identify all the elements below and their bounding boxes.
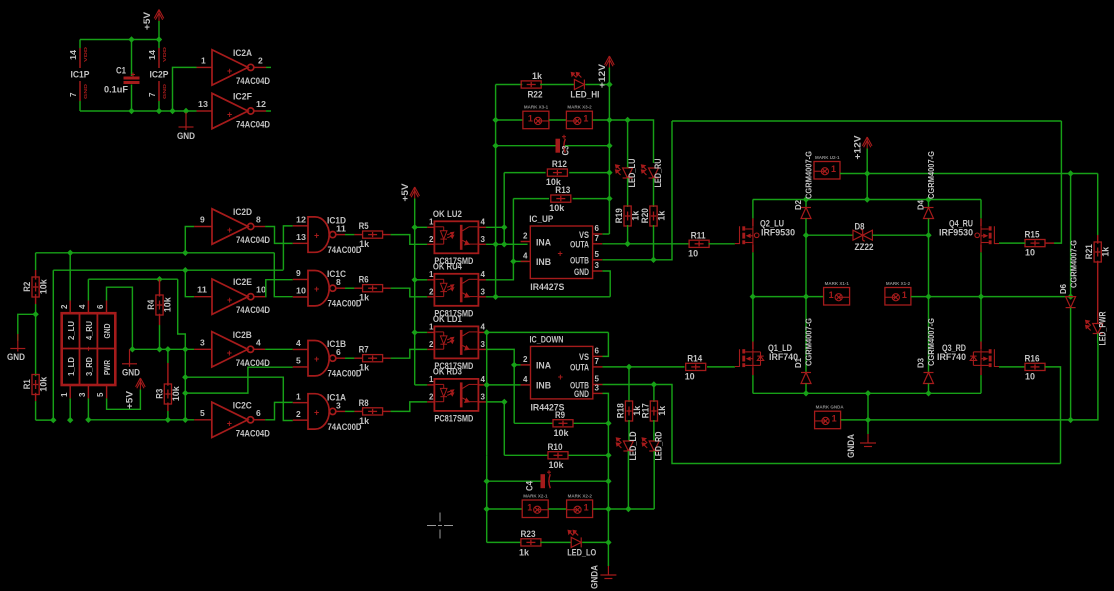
svg-text:10: 10 [688, 248, 698, 259]
wire RU4 pin4 jog to INB [486, 261, 514, 279]
transistor Q4_RU IRF9530 [994, 226, 999, 243]
svg-text:2: 2 [429, 287, 434, 296]
svg-text:+: + [227, 225, 232, 235]
wire +12V to VS [602, 233, 609, 235]
junction IC2A input branch [169, 108, 175, 114]
svg-text:10: 10 [296, 286, 306, 296]
junction INA down node [511, 362, 517, 368]
resistor R5 1k [363, 231, 383, 238]
svg-text:IC2F: IC2F [233, 92, 252, 103]
svg-text:R6: R6 [359, 275, 369, 286]
wire D2 column mid [805, 235, 807, 372]
svg-text:7: 7 [69, 92, 78, 97]
junction in2 branch [182, 374, 188, 380]
wire pin6 to GND node [107, 287, 133, 349]
junction R4 top on h3 [156, 276, 162, 282]
junction D6 top [1067, 170, 1073, 176]
resistor R14 10 [686, 363, 706, 370]
junction D6 bottom [1067, 417, 1073, 423]
svg-text:C1: C1 [116, 66, 127, 77]
junction R19 bottom [624, 241, 630, 247]
svg-text:+: + [227, 348, 232, 358]
wire IC2D input feed [185, 227, 194, 253]
svg-text:R16: R16 [1025, 353, 1040, 364]
driver IC_DOWN IR4427S [531, 346, 593, 399]
resistor R23 1k [487, 541, 522, 543]
led LED_RD [642, 438, 659, 451]
junction opto1 +5V [412, 224, 418, 230]
junction D1 bottom [803, 390, 809, 396]
svg-text:10k: 10k [39, 279, 50, 295]
svg-text:+: + [314, 407, 319, 417]
svg-text:IC2B: IC2B [233, 330, 252, 341]
svg-text:5: 5 [200, 408, 205, 418]
wire IC2A input [173, 67, 197, 111]
svg-text:+12V: +12V [597, 64, 607, 88]
svg-text:CGRM4007-G: CGRM4007-G [804, 151, 814, 199]
svg-text:C3: C3 [561, 146, 572, 156]
svg-text:C4: C4 [525, 480, 536, 491]
junction D4 D8 [925, 232, 931, 238]
svg-text:2: 2 [523, 355, 528, 364]
svg-text:2_LU: 2_LU [66, 321, 76, 340]
ground GND top block [179, 113, 194, 131]
junction IC2P VDD [156, 36, 162, 42]
junction R3 bottom [165, 417, 171, 423]
wire R6 to opto pin2 [383, 287, 391, 289]
svg-text:GND: GND [574, 389, 589, 400]
wire R13 left drop [512, 199, 514, 262]
wire INB chain lower [486, 455, 488, 542]
wire R5 to opto pin2 [383, 234, 391, 236]
ground GNDA bottom [600, 566, 616, 579]
svg-text:LED_PWR: LED_PWR [1098, 311, 1109, 345]
svg-text:4: 4 [523, 251, 528, 260]
svg-text:74AC00D: 74AC00D [328, 422, 362, 433]
junction LED_LD bottom [625, 506, 631, 512]
svg-text:1: 1 [832, 414, 837, 424]
mark box X2 upper [549, 119, 567, 121]
wire top rail VCC [80, 39, 159, 41]
gate IC1C NAND 74AC00D [293, 278, 308, 280]
svg-text:4: 4 [481, 270, 486, 279]
wire R10 riser [503, 402, 505, 455]
svg-text:1: 1 [528, 114, 533, 124]
svg-text:74AC04D: 74AC04D [236, 76, 270, 87]
svg-text:8: 8 [256, 215, 261, 225]
junction pin3 [85, 417, 91, 423]
svg-text:1: 1 [429, 217, 434, 226]
svg-text:OK RD3: OK RD3 [433, 366, 462, 377]
mark box motor right [885, 288, 911, 306]
IC1P power pins [79, 40, 81, 49]
junction RD3 pin4 [484, 382, 490, 388]
svg-text:4: 4 [256, 337, 261, 347]
IC2P power pins [158, 40, 160, 49]
wire h2 drop to bottom rail [52, 270, 54, 420]
wire rail h1 signal [36, 252, 275, 254]
svg-text:1: 1 [429, 322, 434, 331]
junction signal gnd vertical [492, 294, 498, 300]
capacitor C1 0.1uF [131, 40, 133, 77]
svg-text:1k: 1k [657, 210, 668, 221]
junction R3 top [165, 346, 171, 352]
svg-text:R18: R18 [616, 403, 627, 418]
svg-text:4: 4 [481, 375, 486, 384]
svg-text:D4: D4 [916, 200, 926, 210]
wire IC2C out to IC1A in1 [265, 402, 293, 419]
svg-text:+: + [227, 418, 232, 428]
svg-text:+5V: +5V [124, 391, 134, 409]
resistor R4 10k [159, 279, 161, 296]
svg-text:+5V: +5V [400, 184, 410, 202]
resistor R13 10k [513, 198, 549, 200]
wire GND rail [80, 110, 197, 112]
svg-text:IC2C: IC2C [233, 400, 252, 411]
wire pin3 down to bottom rail [87, 398, 89, 420]
svg-text:CGRM4007-G: CGRM4007-G [804, 318, 814, 366]
wire RU4 pin3 to signal vertical [486, 296, 610, 298]
svg-text:6: 6 [256, 408, 261, 418]
resistor R3 10k [167, 349, 169, 363]
junction pin4 R12 [501, 224, 507, 230]
led LED_LO [540, 541, 571, 543]
svg-text:MARK X3-2: MARK X3-2 [567, 105, 592, 110]
svg-text:1: 1 [831, 164, 836, 174]
power +12V top [605, 56, 615, 68]
svg-text:R2: R2 [22, 282, 33, 292]
junction R10 drop [501, 399, 507, 405]
junction R12 drop [501, 241, 507, 247]
optocoupler OK_RD3 PC817SMD [427, 384, 434, 386]
svg-text:D8: D8 [855, 222, 865, 233]
wire OUTA row [602, 243, 689, 245]
svg-text:LED_LO: LED_LO [567, 547, 596, 558]
svg-text:4: 4 [481, 322, 486, 331]
svg-text:3: 3 [481, 392, 486, 401]
svg-text:1k: 1k [359, 239, 370, 250]
svg-text:R9: R9 [555, 410, 565, 421]
junction opto2 +5V [412, 277, 418, 283]
junction opto3 +5V [412, 329, 418, 335]
svg-text:INB: INB [536, 381, 551, 392]
svg-text:VDD: VDD [162, 46, 167, 62]
wire OUTB down to long link [603, 385, 1061, 464]
connector bottom pins 1 3 5 [69, 385, 71, 398]
diode D4 CGRM4007-G [928, 200, 930, 208]
svg-text:10: 10 [256, 285, 266, 295]
junction IC2E feed on h2 [182, 267, 188, 273]
svg-text:R20: R20 [640, 208, 651, 223]
op IC2A inverter 74AC04D [197, 66, 213, 68]
svg-text:1: 1 [429, 270, 434, 279]
svg-text:R13: R13 [555, 185, 570, 196]
ground GND connector [129, 346, 135, 352]
svg-text:2: 2 [296, 409, 301, 419]
svg-text:10k: 10k [554, 428, 570, 439]
junction Q4 Q3 mid [978, 293, 984, 299]
junction R13 +12V [606, 195, 612, 201]
wire VS_DOWN drop [603, 332, 609, 356]
svg-text:3: 3 [78, 392, 87, 397]
svg-text:2: 2 [429, 340, 434, 349]
svg-text:LED_LU: LED_LU [627, 158, 638, 187]
svg-text:+: + [558, 372, 563, 382]
svg-text:R7: R7 [359, 345, 369, 356]
svg-text:+: + [314, 354, 319, 364]
junction R18 top [626, 364, 632, 370]
svg-text:10: 10 [1025, 371, 1035, 382]
svg-text:OUTA: OUTA [570, 363, 589, 374]
resistor R20 1k [650, 206, 657, 226]
junction +12V feed [864, 196, 870, 202]
mark box GNDA [815, 411, 841, 429]
wire R8 to opto pin2 [383, 410, 391, 412]
wire LD1 pin4 node [486, 331, 609, 333]
svg-text:3_RD: 3_RD [84, 357, 94, 376]
svg-text:MARK U2-1: MARK U2-1 [815, 155, 840, 160]
junction LED_LU top [624, 117, 630, 123]
junction D3 mid [925, 293, 931, 299]
svg-text:+12V: +12V [853, 136, 863, 160]
svg-text:IRF740: IRF740 [937, 352, 966, 363]
wire left signal vertical [495, 85, 497, 297]
led LED_PWR [1086, 321, 1103, 334]
wire GND row to IC2B input [132, 348, 194, 350]
junction INB node [510, 258, 516, 264]
mark box +12V [814, 162, 840, 180]
wire OUTA down row [603, 366, 685, 368]
junction GNDA rail [865, 417, 871, 423]
svg-text:74AC04D: 74AC04D [236, 235, 270, 246]
svg-text:PC817SMD: PC817SMD [434, 413, 473, 424]
diode D3 CGRM4007-G [924, 373, 934, 384]
junction pin1 [67, 417, 73, 423]
wire INB straight [487, 384, 521, 386]
svg-text:1k: 1k [1101, 246, 1112, 257]
gate IC2B inverter 74AC04D [194, 348, 212, 350]
svg-text:MARK GNDA: MARK GNDA [816, 405, 845, 410]
svg-text:1_LD: 1_LD [66, 357, 76, 376]
svg-text:OK LD1: OK LD1 [433, 314, 463, 325]
svg-text:LED_HI: LED_HI [570, 90, 599, 101]
svg-text:1: 1 [429, 375, 434, 384]
svg-text:1: 1 [902, 290, 907, 300]
svg-text:D2: D2 [793, 200, 803, 210]
svg-text:6: 6 [595, 346, 600, 355]
wire rail2 drop to R15 [1054, 121, 1061, 243]
svg-text:7: 7 [595, 357, 600, 366]
svg-text:ZZ22: ZZ22 [855, 242, 874, 253]
svg-text:CGRM4007-G: CGRM4007-G [1069, 240, 1079, 288]
gate IC2F inverter 74AC04D [197, 110, 213, 112]
resistor R1 10k [32, 375, 39, 395]
svg-text:R14: R14 [687, 353, 703, 364]
svg-text:1: 1 [201, 55, 206, 65]
svg-text:1k: 1k [359, 363, 370, 374]
junction R2 GND tap [32, 311, 38, 317]
junction LED_HI +12V [606, 81, 612, 87]
connector top pins 2 4 6 [69, 301, 71, 314]
mark box lower 2 [548, 508, 566, 510]
svg-text:GND: GND [177, 131, 195, 142]
svg-text:D6: D6 [1058, 284, 1068, 294]
wire h3 drop to IC2B input [178, 279, 186, 349]
svg-text:74AC04D: 74AC04D [236, 358, 270, 369]
svg-text:12: 12 [256, 99, 266, 109]
svg-text:74AC04D: 74AC04D [236, 305, 270, 316]
junction pin2 on h1 [67, 250, 73, 256]
junction C1 top [128, 36, 134, 42]
svg-text:GNDA: GNDA [846, 434, 857, 458]
svg-text:D1: D1 [793, 358, 803, 368]
svg-text:0.1uF: 0.1uF [104, 85, 128, 96]
svg-text:R1: R1 [22, 379, 33, 390]
svg-text:OUTA: OUTA [570, 240, 589, 251]
transistor Q2_LU IRF9530 [735, 226, 740, 243]
svg-text:10k: 10k [171, 386, 182, 402]
svg-text:LED_RD: LED_RD [654, 431, 665, 460]
capacitor C3 [496, 145, 556, 147]
resistor R2 10k [35, 253, 37, 270]
svg-text:GND: GND [83, 83, 88, 99]
junction h2 drop [50, 417, 56, 423]
svg-text:R15: R15 [1025, 230, 1041, 241]
junction R17 top [651, 381, 657, 387]
svg-text:GND: GND [574, 267, 589, 278]
wire IC2E input feed [185, 270, 194, 297]
svg-text:IC2E: IC2E [233, 277, 252, 288]
svg-text:R3: R3 [154, 389, 165, 399]
led LED_LU [627, 120, 629, 168]
svg-text:1: 1 [296, 391, 301, 401]
svg-text:MARK X1-1: MARK X1-1 [825, 281, 850, 286]
wire LD1 pin3 jog to INA [486, 349, 521, 365]
connector SV1 box [62, 313, 116, 385]
junction R20 bottom [650, 257, 656, 263]
resistor R21 1k [1097, 174, 1099, 236]
svg-text:4: 4 [481, 217, 486, 226]
svg-text:3: 3 [481, 235, 486, 244]
wire INA jog [504, 243, 513, 245]
resistor R10 10k [504, 454, 547, 456]
led LED_HI [540, 84, 574, 86]
junction LD1 pin4 [484, 329, 490, 335]
svg-text:3: 3 [595, 261, 600, 270]
wire mark rail to LED_RU [628, 120, 654, 163]
svg-text:R10: R10 [548, 442, 563, 453]
junction C3 +12V [606, 143, 612, 149]
svg-text:14: 14 [69, 49, 78, 60]
wire IC2B out to IC1B in4 [265, 348, 293, 350]
resistor R18 1k [628, 367, 630, 402]
resistor R8 1k [363, 408, 383, 415]
svg-text:GND: GND [162, 83, 167, 99]
svg-text:LED_RU: LED_RU [653, 158, 664, 187]
junction C1 bottom [128, 108, 134, 114]
wire h1 to IC1C in10 [274, 253, 293, 297]
junction IC2B input node [182, 346, 188, 352]
resistor R16 10 [999, 366, 1025, 368]
diode D1 CGRM4007-G [801, 373, 811, 384]
svg-text:CGRM4007-G: CGRM4007-G [926, 151, 936, 199]
svg-text:10k: 10k [549, 460, 565, 471]
svg-text:5: 5 [595, 250, 600, 259]
wire IC_UP GND drop [602, 271, 610, 297]
svg-text:5: 5 [96, 392, 105, 397]
junction mark rail +12V [606, 117, 612, 123]
svg-text:+: + [227, 66, 232, 76]
junction D2 top [803, 196, 809, 202]
power +5V supply symbol [154, 10, 164, 22]
junction Q2 Q1 mid [750, 293, 756, 299]
capacitor C4 [487, 480, 541, 482]
wire LU2 pin3 to INA [486, 243, 528, 245]
svg-text:3: 3 [481, 340, 486, 349]
svg-text:VDD: VDD [83, 46, 88, 62]
optocoupler OK_LD1 PC817SMD [427, 331, 434, 333]
svg-text:2: 2 [429, 235, 434, 244]
wire rail h3 signal [88, 278, 177, 280]
svg-text:IC_DOWN: IC_DOWN [530, 334, 564, 345]
svg-text:R11: R11 [691, 230, 707, 241]
svg-text:1k: 1k [359, 293, 370, 304]
svg-text:1: 1 [527, 503, 532, 513]
svg-text:74AC04D: 74AC04D [236, 428, 270, 439]
resistor R9 10k [514, 422, 552, 424]
ground GND left [10, 334, 25, 352]
wire RD3 pin3 to R10 drop [486, 401, 504, 403]
gate IC1D NAND 74AC00D [293, 225, 308, 227]
svg-text:10: 10 [685, 371, 695, 382]
svg-text:4_RU: 4_RU [84, 321, 94, 340]
wire OUTB to rail2 [602, 121, 672, 260]
svg-text:MARK X2-1: MARK X2-1 [523, 494, 548, 499]
wire IC2D out to IC1D in13 [265, 227, 293, 244]
wire rail2 top link [672, 120, 1061, 122]
svg-text:5: 5 [296, 356, 301, 366]
svg-text:INB: INB [536, 257, 551, 268]
svg-text:R21: R21 [1084, 244, 1095, 260]
wire +12V rail to R21 column [867, 173, 1097, 175]
svg-text:IC1P: IC1P [71, 70, 91, 81]
svg-text:8: 8 [336, 277, 341, 287]
junction C3 left [492, 143, 498, 149]
svg-text:OK LU2: OK LU2 [433, 209, 462, 220]
svg-text:12: 12 [296, 215, 306, 225]
svg-text:MARK X2-2: MARK X2-2 [568, 494, 593, 499]
svg-text:74AC00D: 74AC00D [328, 369, 362, 380]
svg-text:IRF9530: IRF9530 [761, 228, 795, 239]
svg-text:OK RU4: OK RU4 [433, 261, 463, 272]
svg-text:13: 13 [296, 232, 306, 242]
svg-text:MARK X1-2: MARK X1-2 [886, 281, 911, 286]
wire pin4 chain down [486, 332, 488, 455]
junction R10 right [605, 452, 611, 458]
junction D2 D8 [803, 232, 809, 238]
wire +5V to pin1 stubs [415, 226, 428, 228]
svg-text:14: 14 [148, 49, 157, 60]
svg-text:R8: R8 [359, 398, 369, 409]
svg-text:VS: VS [579, 352, 589, 363]
wire GND down drop [603, 393, 609, 566]
svg-text:7: 7 [595, 234, 600, 243]
wire bridge bottom rail [753, 392, 981, 394]
resistor R19 1k [624, 206, 631, 226]
diode D2 CGRM4007-G [805, 200, 807, 208]
junction GND symbol [183, 108, 189, 114]
wire pin4 up to h3 [87, 279, 89, 300]
